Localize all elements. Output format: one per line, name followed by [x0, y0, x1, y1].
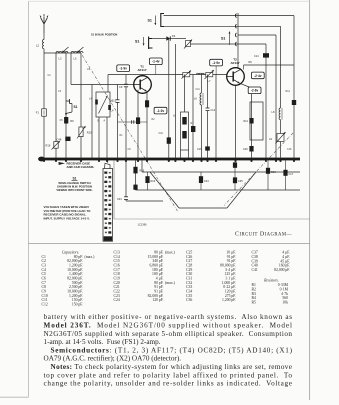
svg-text:R1: R1	[252, 283, 257, 287]
svg-text:C9: C9	[119, 85, 123, 89]
svg-text:4·7k: 4·7k	[281, 292, 288, 296]
svg-text:AND CAR CHASSIS.: AND CAR CHASSIS.	[67, 165, 95, 169]
component R16	[145, 172, 155, 190]
svg-text:AF117: AF117	[137, 68, 146, 72]
resistor R10 (variable)	[77, 85, 92, 158]
svg-text:S1: S1	[72, 177, 76, 181]
diode X1	[166, 34, 176, 41]
svg-text:R3: R3	[252, 292, 257, 296]
junction	[192, 160, 194, 162]
svg-text:C17: C17	[289, 173, 294, 176]
chassis ground rail	[38, 157, 300, 162]
switch contact hook	[235, 42, 236, 46]
svg-text:0·1M: 0·1M	[280, 287, 289, 291]
svg-text:-1·9v: -1·9v	[119, 67, 127, 71]
wire output rail 2	[136, 189, 301, 191]
wire	[141, 160, 143, 172]
svg-text:R11: R11	[244, 120, 249, 123]
wire	[55, 53, 57, 158]
svg-text:WAVE-CHANGE SWITCH: WAVE-CHANGE SWITCH	[58, 181, 90, 185]
tuning scale strip	[103, 160, 113, 241]
note S1 wave-change switch	[56, 177, 93, 193]
svg-text:1-amp. at 14·5 volts. Fuse (F: 1-amp. at 14·5 volts. Fuse (FS1) 2-amp.	[44, 338, 161, 346]
wire	[135, 160, 137, 190]
svg-text:top cover plate and refer to p: top cover plate and refer to polarity la…	[44, 371, 293, 379]
junction	[250, 160, 252, 162]
wire	[164, 25, 281, 27]
svg-text:C38: C38	[252, 255, 258, 259]
wire rail (T1 collector line)	[108, 74, 227, 76]
svg-text:-1·9v: -1·9v	[212, 61, 220, 65]
svg-text:battery with either positive-: battery with either positive- or negativ…	[44, 313, 293, 321]
capacitor C48	[57, 137, 71, 142]
junction	[146, 160, 148, 162]
svg-text:Semiconductors: (T1, 2, 3) AF1: Semiconductors: (T1, 2, 3) AF117; (T4) O…	[51, 346, 293, 354]
IF transformer box	[173, 75, 189, 158]
component R13	[266, 160, 276, 190]
svg-text:OA79 (A.G.C. rectifier); (X2): OA79 (A.G.C. rectifier); (X2) OA70 (dete…	[44, 355, 182, 363]
svg-text:S1: S1	[148, 19, 152, 23]
svg-text:4 µF.: 4 µF.	[282, 255, 290, 259]
trimmer L9	[269, 132, 286, 144]
wire	[215, 66, 217, 75]
voltage label -1.4v	[149, 58, 162, 65]
voltage label -2.4v	[251, 72, 264, 79]
svg-text:C40: C40	[252, 264, 258, 268]
wire	[91, 85, 93, 158]
svg-text:560: 560	[282, 296, 288, 300]
component C35	[233, 160, 243, 190]
svg-text:C14: C14	[254, 55, 259, 58]
coil L2	[36, 33, 44, 53]
junction	[206, 160, 208, 162]
svg-text:C7: C7	[110, 99, 114, 103]
IF transformer T2 box	[250, 102, 263, 140]
svg-text:10k: 10k	[282, 301, 288, 305]
wire output rail 1	[142, 171, 300, 173]
wire	[107, 75, 109, 93]
svg-text:C24: C24	[114, 298, 120, 302]
wire aerial rail	[44, 52, 81, 54]
voltage label -1.2v	[154, 107, 167, 114]
coil L3	[56, 52, 68, 61]
aerial A1	[40, 15, 49, 34]
wire	[170, 38, 186, 40]
wire	[125, 160, 127, 196]
svg-text:160 pF.: 160 pF.	[279, 264, 290, 268]
resistor R12	[249, 146, 253, 152]
wire	[80, 53, 82, 85]
note voltages	[44, 205, 92, 220]
junction	[275, 160, 277, 162]
wire output rail 3	[126, 200, 163, 202]
resistor R11	[249, 118, 253, 124]
junction	[168, 160, 170, 162]
wire	[43, 53, 45, 158]
junction	[265, 160, 267, 162]
svg-text:R14: R14	[286, 90, 291, 93]
switch contact hook	[235, 33, 236, 37]
component C17	[283, 160, 293, 190]
resistor R8	[191, 75, 195, 158]
svg-text:-2·4v: -2·4v	[254, 74, 262, 78]
coil L5	[71, 52, 83, 61]
junction	[80, 160, 82, 162]
capacitor C7	[110, 85, 120, 158]
dial drive dash line	[224, 133, 293, 206]
resistor R4	[145, 92, 149, 158]
svg-text:R16: R16	[151, 180, 156, 183]
switch S1c	[65, 99, 78, 115]
wire	[70, 53, 72, 85]
ground symbol and note	[59, 161, 95, 169]
resistor R15	[133, 167, 137, 174]
svg-text:C12: C12	[42, 302, 48, 306]
svg-text:-1·4v: -1·4v	[152, 60, 160, 64]
resistor R3	[136, 90, 140, 158]
svg-text:C36: C36	[186, 298, 192, 302]
svg-text:R9: R9	[70, 119, 74, 123]
svg-text:X1: X1	[172, 34, 176, 38]
capacitor C17a	[292, 100, 296, 105]
switch contact hook	[235, 14, 236, 18]
svg-text:C33: C33	[117, 198, 122, 201]
junction	[125, 160, 127, 162]
capacitor C14	[254, 53, 269, 58]
junction	[174, 160, 176, 162]
svg-text:Model 236T. Model N2G36T/00 s: Model 236T. Model N2G36T/00 supplied wit…	[44, 322, 292, 330]
svg-text:(max.): (max.)	[85, 255, 96, 259]
svg-text:C39: C39	[252, 259, 258, 263]
svg-text:R10: R10	[87, 131, 92, 135]
capacitor C9	[119, 75, 128, 158]
transistor T1	[134, 64, 152, 93]
gang tuning dash line	[79, 50, 178, 212]
wire lower gray rail	[114, 218, 310, 220]
wire	[155, 65, 157, 75]
wire	[215, 75, 217, 158]
wire	[113, 160, 115, 219]
junction	[43, 160, 45, 162]
svg-text:C34: C34	[204, 180, 209, 183]
wire T2 collector	[244, 64, 294, 66]
wire	[65, 53, 67, 158]
svg-text:Capacitors.: Capacitors.	[62, 250, 80, 254]
svg-text:150 pF.: 150 pF.	[72, 302, 83, 306]
svg-text:C10: C10	[159, 132, 164, 135]
svg-text:R19: R19	[46, 144, 51, 148]
wire	[174, 44, 176, 158]
svg-text:S1: S1	[135, 40, 139, 44]
svg-text:C26: C26	[243, 148, 248, 151]
junction	[106, 160, 108, 162]
voltage label -2.6v	[248, 87, 261, 94]
svg-text:45 µF.: 45 µF.	[280, 259, 290, 263]
trimmer arrow L3	[62, 47, 69, 53]
wire	[237, 13, 239, 68]
svg-text:120 pF.: 120 pF.	[152, 298, 163, 302]
svg-text:1C1366: 1C1366	[138, 223, 148, 227]
wire	[106, 117, 108, 158]
wire	[275, 35, 277, 158]
wire T2 emitter	[240, 83, 252, 88]
speaker panel outline	[150, 172, 179, 208]
capacitor C12	[206, 75, 216, 158]
wire	[168, 39, 170, 158]
svg-text:SHOWN IN M.W. POSITION: SHOWN IN M.W. POSITION	[57, 185, 92, 189]
svg-text:AF117: AF117	[230, 61, 239, 65]
transistor T2	[227, 57, 245, 85]
svg-text:VIEWED INTO FRONT SIDE.: VIEWED INTO FRONT SIDE.	[56, 188, 93, 192]
wire	[265, 44, 267, 53]
svg-text:C37: C37	[252, 251, 258, 255]
resistor R9	[64, 117, 74, 124]
junction	[55, 160, 57, 162]
trimmer C21	[184, 40, 192, 49]
wire bottom gray rail	[28, 243, 309, 245]
capacitor C10	[118, 120, 148, 124]
switch contact hook	[235, 24, 236, 28]
svg-text:Notes: To check polarity-syste: Notes: To check polarity-system for whic…	[51, 363, 293, 371]
wire	[164, 15, 295, 17]
svg-text:C41: C41	[252, 268, 258, 272]
svg-text:S1: S1	[74, 105, 78, 109]
svg-text:change the polarity, unsolder: change the polarity, unsolder and re-sol…	[44, 380, 293, 388]
resistor R16a	[133, 185, 137, 190]
svg-text:0·33M: 0·33M	[278, 283, 289, 287]
svg-text:C12: C12	[211, 109, 216, 112]
svg-text:C18: C18	[287, 148, 292, 151]
svg-text:R4: R4	[252, 296, 257, 300]
junction	[98, 160, 100, 162]
junction	[137, 160, 139, 162]
svg-text:(max.): (max.)	[165, 281, 176, 285]
voltage label -1.9v (2)	[210, 59, 223, 66]
resistor R19	[46, 141, 60, 150]
fuse FS1	[36, 109, 47, 116]
svg-text:S1 IN M.W. POSITION: S1 IN M.W. POSITION	[91, 33, 117, 37]
wire	[238, 34, 276, 36]
svg-text:-1·2v: -1·2v	[157, 109, 165, 113]
svg-text:INPUT. SUPPLY VOLTAGE 14·5 V.: INPUT. SUPPLY VOLTAGE 14·5 V.	[44, 216, 90, 220]
switch S1a	[148, 13, 165, 27]
wire	[152, 38, 166, 40]
svg-text:CIRCUIT DIAGRAM—: CIRCUIT DIAGRAM—	[235, 231, 292, 238]
svg-text:R15: R15	[140, 170, 145, 173]
junction	[65, 160, 67, 162]
wire	[191, 43, 267, 45]
wire T1 base line	[71, 84, 134, 86]
component C34	[199, 172, 209, 190]
wire T2 to chassis	[235, 85, 237, 158]
svg-text:-2·6v: -2·6v	[251, 89, 259, 93]
svg-text:L2: L2	[36, 44, 40, 48]
capacitor C33	[124, 196, 128, 198]
voltage label -1.9v	[117, 65, 130, 72]
wire	[98, 117, 100, 158]
svg-text:C35: C35	[238, 180, 243, 183]
svg-text:R2: R2	[252, 287, 257, 291]
switch S1d	[221, 32, 231, 46]
oscillator section box L4/C13	[89, 92, 117, 122]
junction	[215, 160, 217, 162]
junction	[116, 160, 118, 162]
junction	[279, 160, 281, 162]
svg-text:R5: R5	[252, 301, 257, 305]
svg-text:C48: C48	[57, 137, 62, 141]
svg-text:F1: F1	[36, 111, 40, 115]
junction	[293, 160, 295, 162]
coil L6b	[194, 75, 203, 158]
resistor R5 (variable, on rail)	[182, 71, 192, 79]
svg-text:S1: S1	[221, 37, 225, 41]
wire	[293, 16, 295, 158]
coil L7 trimmer	[205, 70, 214, 83]
svg-text:C11: C11	[196, 88, 201, 91]
svg-text:N2G36T/05 supplied with separa: N2G36T/05 supplied with separate 5-ohm e…	[44, 330, 293, 338]
junction	[183, 160, 185, 162]
capacitor C16	[197, 146, 210, 151]
wire	[280, 142, 282, 158]
switch S1b	[135, 37, 153, 50]
svg-text:R13: R13	[271, 171, 276, 174]
coil L8	[272, 26, 283, 133]
resistor R7	[167, 137, 171, 143]
junction	[234, 160, 236, 162]
coil L6a on rail	[197, 73, 205, 74]
svg-text:C16: C16	[197, 148, 202, 151]
svg-text:4 µF.: 4 µF.	[282, 251, 290, 255]
svg-text:(max.): (max.)	[165, 251, 176, 255]
svg-text:Resistors.: Resistors.	[263, 278, 279, 282]
junction	[200, 160, 202, 162]
trimmer arrow L5	[77, 47, 84, 53]
